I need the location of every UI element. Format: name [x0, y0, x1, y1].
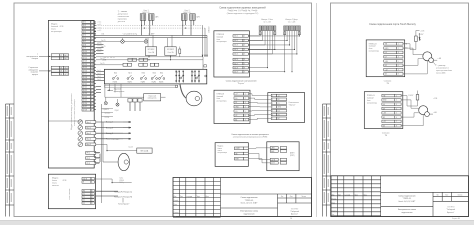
- svg-text:20: 20: [91, 83, 93, 85]
- svg-text:14: 14: [91, 64, 93, 66]
- svg-text:10: 10: [91, 51, 93, 53]
- svg-text:К4.1: К4.1: [153, 72, 156, 74]
- svg-text:ДК: ДК: [60, 71, 62, 73]
- svg-text:Вых 5: Вых 5: [87, 144, 91, 146]
- svg-text:Лист: Лист: [445, 195, 448, 197]
- svg-text:Вых 2: Вых 2: [87, 127, 91, 129]
- svg-text:контроллера: контроллера: [217, 41, 227, 43]
- U1 left terminal cluster (tamper input): [51, 66, 68, 75]
- svg-text:5: 5: [91, 35, 92, 37]
- svg-text:8: 8: [244, 67, 245, 69]
- svg-text:BZ: BZ: [235, 119, 237, 121]
- svg-text:1: 1: [398, 44, 399, 46]
- svg-text:5: 5: [91, 100, 92, 102]
- svg-text:QF1: QF1: [155, 17, 158, 19]
- svg-text:DI 13: DI 13: [83, 61, 87, 63]
- wires to detector box: [104, 84, 106, 97]
- svg-text:подключения: подключения: [401, 212, 412, 214]
- svg-text:Листов: Листов: [301, 196, 306, 198]
- svg-text:16: 16: [91, 70, 93, 72]
- svg-text:РК 1: РК 1: [87, 153, 90, 155]
- subdiagram 3: PLC terminal block: [215, 143, 248, 167]
- svg-text:19: 19: [91, 80, 93, 82]
- svg-text:для сети: для сети: [118, 21, 125, 23]
- svg-text:+U: +U: [278, 95, 280, 97]
- svg-text:17: 17: [91, 74, 93, 76]
- svg-text:Электрическая схема: Электрическая схема: [240, 211, 258, 213]
- subdiagram 1 terminal ladder: [233, 35, 248, 73]
- svg-text:7: 7: [245, 119, 246, 121]
- svg-text:Дата: Дата: [206, 196, 209, 198]
- resistor R1 (620): [415, 31, 417, 37]
- svg-text:см. АВР: см. АВР: [148, 32, 155, 35]
- svg-text:БП 24/12: БП 24/12: [167, 49, 174, 51]
- dots on dotted bus at breaker drops: [141, 25, 186, 29]
- svg-text:2: 2: [396, 100, 397, 102]
- svg-text:Схема подключения: Схема подключения: [398, 195, 415, 197]
- svg-text:+12 В: +12 В: [271, 159, 275, 161]
- svg-text:DI 8: DI 8: [83, 44, 86, 46]
- svg-text:1: 1: [396, 95, 397, 97]
- security detector box: [144, 94, 161, 101]
- svg-text:питания: питания: [52, 185, 59, 187]
- sheet 1 left margin attribute boxes: [6, 104, 15, 217]
- sheet2 diagram 1: PLC terminal block: [366, 40, 405, 77]
- svg-text:4: 4: [91, 31, 92, 33]
- svg-text:DI 19: DI 19: [83, 80, 87, 82]
- svg-text:8: 8: [396, 126, 397, 128]
- svg-text:Granit - А, Б, В, 1ОАТ": Granit - А, Б, В, 1ОАТ": [240, 202, 258, 205]
- svg-text:4: 4: [244, 49, 245, 51]
- wire arrow to tamper terminals: [39, 70, 51, 72]
- svg-text:+12: +12: [383, 121, 386, 123]
- svg-text:сл 4,5: сл 4,5: [97, 51, 101, 53]
- svg-text:Т1: Т1: [83, 194, 85, 196]
- svg-text:10: 10: [290, 218, 292, 220]
- svg-text:ШС 6: ШС 6: [234, 59, 238, 61]
- svg-text:СЦН2: СЦН2: [115, 110, 119, 112]
- subdiagram 3: RIP block: [267, 142, 299, 171]
- wires PLC to RIP: [248, 148, 270, 163]
- svg-text:сл 4,5: сл 4,5: [97, 21, 101, 23]
- bottom gray strip (screen background below sheets): [0, 220, 474, 225]
- svg-text:1: 1: [244, 36, 245, 38]
- svg-text:BZ: BZ: [383, 117, 385, 119]
- fuse FU1: [179, 49, 181, 54]
- wires from PLC to XS2: [401, 96, 423, 126]
- svg-text:6: 6: [91, 38, 92, 40]
- svg-text:вывода сигналов контроллера: вывода сигналов контроллера: [74, 98, 76, 126]
- extra drops below relay box: [114, 84, 116, 93]
- svg-text:ООО НПО: ООО НПО: [291, 208, 299, 210]
- svg-text:8: 8: [398, 74, 399, 76]
- svg-text:ШС 9: ШС 9: [234, 72, 238, 74]
- svg-text:Разраб.: Разраб.: [332, 198, 338, 200]
- svg-text:DI 4: DI 4: [83, 31, 86, 33]
- svg-text:Изм: Изм: [174, 196, 177, 198]
- svg-text:+12 В: +12 В: [433, 98, 437, 100]
- svg-text:2: 2: [91, 90, 92, 92]
- svg-text:Модуль аналогового ввода и дис: Модуль аналогового ввода и дискретного: [71, 94, 73, 130]
- wire harness XT2 to terminals: [248, 31, 299, 72]
- svg-text:-12 В: -12 В: [271, 163, 275, 165]
- svg-text:DI 25: DI 25: [83, 100, 87, 102]
- svg-text:2: 2: [244, 40, 245, 42]
- svg-text:ШС 2: ШС 2: [234, 40, 238, 42]
- svg-text:К2.1: К2.1: [129, 72, 132, 74]
- svg-text:в МВ110: в МВ110: [209, 27, 211, 33]
- left trunk wire: [101, 104, 103, 203]
- harness junction dots: [267, 35, 300, 72]
- svg-text:3: 3: [244, 45, 245, 47]
- svg-text:С2: С2: [83, 203, 85, 205]
- svg-text:* – резистор: * – резистор: [436, 65, 445, 67]
- svg-text:С1: С1: [83, 200, 85, 202]
- svg-text:15: 15: [91, 67, 93, 69]
- БП feed drops: [147, 38, 149, 47]
- svg-text:3: 3: [398, 52, 399, 54]
- svg-text:2х0,75: 2х0,75: [101, 40, 106, 42]
- note text block (asterisk note, 5 lines): [118, 11, 130, 23]
- junction terminal blocks row: [128, 99, 142, 103]
- svg-text:блока: блока: [218, 148, 222, 150]
- svg-text:подключения: подключения: [243, 214, 254, 216]
- svg-text:D1: D1: [235, 102, 237, 104]
- svg-text:+5B: +5B: [385, 61, 388, 63]
- TM connector socket XS1: [423, 52, 432, 61]
- svg-text:6: 6: [244, 59, 245, 61]
- svg-text:№ докум.: № докум.: [344, 194, 351, 196]
- sheet 1 title block (stamp): [173, 178, 312, 217]
- arrow: to sound annunciator: [109, 84, 111, 90]
- breaker drop wires: [142, 20, 194, 35]
- svg-text:DI 21: DI 21: [83, 87, 87, 89]
- U1 internal module divider: [48, 120, 82, 122]
- svg-text:ПЦН5: ПЦН5: [159, 82, 163, 84]
- svg-text:Извещат. 1 Окно: Извещат. 1 Окно: [261, 19, 273, 21]
- svg-text:7: 7: [91, 106, 92, 108]
- svg-text:ПЦН2: ПЦН2: [127, 82, 131, 84]
- svg-text:3: 3: [396, 104, 397, 106]
- svg-text:батареи: батареи: [32, 58, 38, 60]
- svg-text:контроллера: контроллера: [369, 51, 379, 53]
- svg-text:Извещат. 2 Дверь: Извещат. 2 Дверь: [285, 19, 297, 21]
- trunk row labels: [105, 108, 111, 118]
- svg-text:контроллера: контроллера: [218, 152, 228, 154]
- svg-text:Схема подключения порта Touch: Схема подключения порта Touch Memory: [369, 23, 417, 26]
- svg-text:контроллера: контроллера: [51, 31, 62, 33]
- svg-text:6: 6: [91, 103, 92, 105]
- svg-text:4: 4: [398, 57, 399, 59]
- svg-text:11: 11: [91, 54, 93, 56]
- svg-text:электропитания резервированног: электропитания резервированного (РИП): [233, 136, 268, 138]
- relay contact groups K1..K5: [112, 75, 164, 79]
- svg-text:6: 6: [396, 117, 397, 119]
- svg-text:BZ: BZ: [385, 65, 387, 67]
- svg-text:+12: +12: [385, 69, 388, 71]
- svg-text:~ сеть 220 В, 50 Гц: ~ сеть 220 В, 50 Гц: [122, 33, 137, 35]
- svg-text:DI 15: DI 15: [83, 67, 87, 69]
- svg-text:1: 1: [92, 200, 93, 202]
- indicator lamp HL1: [121, 40, 125, 44]
- wire to BA2: [103, 161, 118, 163]
- svg-text:ХТ2: ХТ2: [191, 72, 194, 74]
- svg-text:+12 В: +12 В: [420, 30, 424, 32]
- bus end terminal marks: [204, 65, 207, 67]
- svg-text:DI 2: DI 2: [83, 25, 86, 27]
- note text (resistor placement): [436, 65, 452, 75]
- svg-text:D1: D1: [278, 103, 280, 105]
- svg-text:0B: 0B: [383, 126, 385, 128]
- svg-text:D0: D0: [235, 98, 237, 100]
- svg-text:К: К: [92, 190, 93, 192]
- sheet 2 frame (A4): [331, 3, 469, 217]
- svg-text:ШС 8: ШС 8: [234, 67, 238, 69]
- svg-text:DI 16: DI 16: [83, 70, 87, 72]
- subdiagram 2: PLC terminal block: [214, 90, 250, 123]
- svg-text:контроллера: контроллера: [367, 102, 377, 104]
- svg-text:(Замок подключен к подъездам О: (Замок подключен к подъездам ОС): [227, 13, 259, 15]
- relay strip terminal columns (right clusters): [176, 71, 200, 83]
- svg-text:9: 9: [91, 48, 92, 50]
- indicator lamp HL2: [144, 40, 148, 44]
- svg-text:BZ: BZ: [278, 118, 280, 120]
- U1 right terminal ladder (DI/DO terminals): [82, 21, 94, 111]
- svg-text:6: 6: [245, 115, 246, 117]
- svg-text:DI 27: DI 27: [83, 106, 87, 108]
- svg-text:ШС 2: ШС 2: [64, 71, 68, 73]
- svg-text:9: 9: [244, 72, 245, 74]
- svg-text:Вых 1: Вых 1: [87, 122, 91, 124]
- svg-text:Т2: Т2: [83, 197, 85, 199]
- svg-text:"Портал": "Портал": [237, 83, 245, 85]
- siren hose wire: [180, 84, 186, 98]
- svg-text:сл 4,5: сл 4,5: [97, 30, 101, 32]
- svg-text:8: 8: [91, 44, 92, 46]
- svg-text:Подп.: Подп.: [196, 196, 200, 198]
- svg-text:"Портал": "Портал": [289, 105, 296, 107]
- svg-text:Вых 4: Вых 4: [87, 139, 91, 141]
- subdiagram 2: reader block: [268, 93, 305, 123]
- svg-text:Разраб.: Разраб.: [174, 200, 180, 202]
- svg-text:DI 17: DI 17: [83, 74, 87, 76]
- svg-text:сл 4,5: сл 4,5: [97, 28, 101, 30]
- svg-text:DI 26: DI 26: [83, 103, 87, 105]
- svg-text:DI 6: DI 6: [83, 38, 86, 40]
- svg-text:БП 24/12: БП 24/12: [148, 49, 155, 51]
- svg-text:N: N: [83, 182, 84, 184]
- sheet2 diagram 2: PLC terminal block: [364, 92, 403, 129]
- svg-text:сл. 4,5: сл. 4,5: [97, 49, 102, 51]
- power supply G1 (БП): [145, 47, 156, 56]
- svg-text:плата: плата: [218, 150, 222, 152]
- svg-text:РК 2: РК 2: [87, 158, 90, 160]
- svg-text:2x0,75: 2x0,75: [100, 63, 105, 65]
- svg-text:нет. 4,5: нет. 4,5: [110, 57, 115, 59]
- svg-text:DI 24: DI 24: [83, 96, 87, 98]
- svg-text:Схема подключения: Схема подключения: [241, 197, 258, 199]
- svg-text:Резерв (Р) Резерв (С): Резерв (Р) Резерв (С): [114, 192, 132, 194]
- DIN rail strip below relay box: [105, 85, 178, 87]
- svg-text:ПЦН4: ПЦН4: [152, 82, 156, 84]
- svg-text:Лист: Лист: [290, 196, 293, 198]
- wires U1 to relay strip: [96, 72, 104, 81]
- svg-text:1: 1: [91, 87, 92, 89]
- U1 left terminal cluster (battery fault input): [51, 54, 68, 60]
- svg-text:тип 1 +12В: тип 1 +12В: [263, 21, 271, 23]
- svg-text:(РИП): (РИП): [290, 155, 295, 157]
- svg-text:РК: РК: [83, 190, 85, 192]
- svg-text:ШС 4: ШС 4: [234, 49, 238, 51]
- svg-text:ШС 3: ШС 3: [234, 45, 238, 47]
- svg-text:Н.контр.: Н.контр.: [332, 210, 338, 212]
- svg-text:DI 11: DI 11: [83, 54, 87, 56]
- svg-text:при отсутствии блока: при отсутствии блока: [436, 70, 452, 72]
- svg-text:нет. 4,5: нет. 4,5: [104, 57, 109, 59]
- svg-text:ДК: ДК: [60, 74, 62, 76]
- svg-text:Пров.: Пров.: [332, 202, 336, 204]
- svg-text:5: 5: [398, 61, 399, 63]
- subdiagram 1: PLC terminal block (left): [214, 31, 250, 77]
- svg-text:к БВ: к БВ: [438, 58, 441, 60]
- svg-text:DI 12: DI 12: [83, 57, 87, 59]
- svg-text:Лист: Лист: [180, 196, 183, 198]
- mains bus L: [96, 34, 207, 36]
- svg-text:R 620*: R 620*: [409, 95, 414, 97]
- wire arrow to battery fault terminals: [39, 55, 51, 57]
- svg-text:ШС 1: ШС 1: [234, 36, 238, 38]
- svg-text:1: 1: [245, 94, 246, 96]
- svg-text:DI 1: DI 1: [83, 22, 86, 24]
- wires from PLC to XS1: [403, 44, 427, 74]
- svg-text:ШС 7: ШС 7: [234, 63, 238, 65]
- trunk wire down the left: [102, 122, 104, 162]
- aux contact symbols below junction row: [104, 102, 107, 105]
- U1 bottom terminal rows: [86, 152, 96, 165]
- svg-text:Вых 3: Вых 3: [87, 133, 91, 135]
- stub wires from U1 bottom terminals: [94, 153, 100, 163]
- wire harness XT1 to terminals: [248, 31, 275, 68]
- svg-text:оповещатель: оповещатель: [114, 91, 125, 93]
- svg-text:№ докум.: № докум.: [186, 196, 193, 198]
- contact symbols in right clusters: [180, 77, 182, 79]
- svg-text:13: 13: [91, 61, 93, 63]
- svg-text:Пров.: Пров.: [174, 204, 178, 206]
- relay terminal strip box: [104, 69, 206, 84]
- svg-text:2: 2: [92, 203, 93, 205]
- svg-text:ШС 1: ШС 1: [64, 67, 68, 69]
- svg-text:50 Гц: 50 Гц: [119, 182, 123, 184]
- svg-text:К3.1: К3.1: [142, 72, 145, 74]
- svg-text:7: 7: [396, 121, 397, 123]
- sheet 1 frame (A3): [14, 3, 312, 217]
- svg-text:DI 23: DI 23: [83, 93, 87, 95]
- svg-text:Модуль: Модуль: [218, 146, 224, 148]
- svg-text:0В: 0В: [235, 153, 237, 155]
- svg-text:DI 18: DI 18: [83, 77, 87, 79]
- svg-text:Электрическая схема: Электрическая схема: [398, 209, 416, 211]
- svg-text:3: 3: [91, 28, 92, 30]
- svg-text:DI 28: DI 28: [83, 109, 87, 111]
- svg-text:5: 5: [244, 54, 245, 56]
- cable designation microlabels along U1 stub wires: [97, 21, 101, 80]
- stub wires from U1 connector circles: [96, 122, 123, 139]
- siren BA2 (horn, lower-left): [118, 153, 129, 170]
- svg-text:ООО НПО: ООО НПО: [447, 207, 455, 209]
- U1 name text: [51, 24, 64, 34]
- svg-text:DI 3: DI 3: [83, 28, 86, 30]
- svg-text:ПЦН1: ПЦН1: [113, 82, 117, 84]
- svg-text:DI 22: DI 22: [83, 90, 87, 92]
- svg-text:2: 2: [92, 197, 93, 199]
- svg-text:выноса (БВ): выноса (БВ): [436, 72, 446, 74]
- svg-text:L: L: [92, 178, 93, 180]
- svg-text:7: 7: [244, 63, 245, 65]
- sheet 2 left margin attribute boxes: [323, 104, 331, 217]
- siren BA1 (horn, right): [186, 91, 202, 106]
- svg-text:тип 2 +12В: тип 2 +12В: [288, 21, 296, 23]
- svg-text:DI 5: DI 5: [83, 35, 86, 37]
- svg-text:"Блок Гранит": "Блок Гранит": [118, 204, 130, 206]
- svg-text:ДТ: ДТ: [60, 58, 62, 60]
- svg-text:DI 14: DI 14: [83, 64, 87, 66]
- 24V distribution pair: [96, 56, 203, 58]
- svg-text:ШС 3: ШС 3: [64, 74, 68, 76]
- wires PLC to reader: [249, 94, 271, 120]
- svg-text:К5.1: К5.1: [160, 72, 163, 74]
- PLC controller U1 (ПЛК81-03) main block: [48, 20, 94, 168]
- svg-text:"ПЛК81-03,: "ПЛК81-03,: [403, 198, 412, 200]
- svg-text:DI 9: DI 9: [83, 48, 86, 50]
- U2 top terminal rows: [82, 178, 94, 184]
- output label rows (Выход 1..3 / Реле): [106, 122, 120, 141]
- svg-text:плата питания: плата питания: [69, 189, 71, 200]
- svg-text:Н.контр.: Н.контр.: [174, 212, 180, 214]
- svg-text:Подп.: Подп.: [354, 194, 358, 196]
- lamp connection wires: [96, 41, 121, 43]
- svg-text:2х0,75: 2х0,75: [101, 46, 106, 48]
- svg-text:Дата: Дата: [364, 194, 367, 196]
- svg-text:L: L: [92, 182, 93, 184]
- svg-text:7: 7: [398, 69, 399, 71]
- resistor R2 (620): [417, 91, 419, 95]
- power module U2 (lower block): [48, 174, 95, 209]
- svg-text:DI 10: DI 10: [83, 51, 87, 53]
- svg-text:корпуса: корпуса: [32, 74, 38, 76]
- U2 lower terminal rows: [82, 190, 94, 205]
- svg-text:устанавливается: устанавливается: [436, 67, 449, 69]
- cable marking stubs from U1 terminals: [94, 22, 104, 163]
- svg-text:7: 7: [91, 41, 92, 43]
- svg-text:1: 1: [91, 22, 92, 24]
- svg-text:Листов: Листов: [458, 195, 463, 197]
- svg-text:ПЦН3: ПЦН3: [141, 82, 145, 84]
- svg-text:220 В: 220 В: [83, 178, 87, 180]
- svg-text:К1.1: К1.1: [114, 72, 117, 74]
- svg-text:DI 7: DI 7: [83, 41, 86, 43]
- svg-text:ХТ1: ХТ1: [175, 72, 178, 74]
- sheet 2 title block (stamp): [331, 176, 469, 217]
- svg-text:Лист: Лист: [338, 194, 341, 196]
- svg-text:1: 1: [92, 194, 93, 196]
- svg-text:4: 4: [396, 108, 397, 110]
- svg-text:3: 3: [91, 93, 92, 95]
- svg-text:8: 8: [91, 109, 92, 111]
- svg-text:Granit - А, Б, В, 1ОАТ": Granit - А, Б, В, 1ОАТ": [398, 200, 416, 203]
- reserve output labels: [114, 192, 132, 206]
- svg-text:ДК: ДК: [60, 67, 62, 69]
- svg-text:6: 6: [398, 65, 399, 67]
